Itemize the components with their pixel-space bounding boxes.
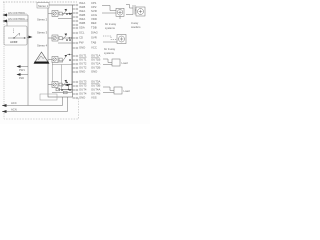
svg-text:Load: Load — [122, 61, 128, 65]
svg-text:PkD: PkD — [19, 76, 24, 80]
svg-text:CD: CD — [79, 36, 83, 40]
svg-text:for 3-way: for 3-way — [104, 47, 116, 51]
svg-text:IN3B: IN3B — [79, 21, 85, 25]
svg-text:GND: GND — [79, 70, 85, 74]
svg-text:GND: GND — [79, 96, 85, 100]
svg-text:systems: systems — [105, 26, 116, 30]
svg-text:Stereo 3: Stereo 3 — [37, 31, 48, 35]
svg-text:TDB: TDB — [91, 26, 97, 30]
svg-text:DIAG: DIAG — [91, 31, 98, 35]
svg-text:VSS: VSS — [91, 96, 97, 100]
svg-text:woofers: woofers — [131, 25, 141, 29]
svg-text:ACC: ACC — [11, 101, 17, 105]
svg-text:ACDF: ACDF — [10, 40, 18, 44]
svg-text:Stereo 2: Stereo 2 — [37, 18, 48, 22]
svg-text:Stereo 1: Stereo 1 — [38, 4, 49, 8]
svg-text:Stereo 4: Stereo 4 — [37, 44, 48, 48]
svg-text:SCL: SCL — [79, 31, 85, 35]
svg-text:systems: systems — [104, 51, 115, 55]
svg-text:for 2-way: for 2-way — [105, 22, 117, 26]
svg-text:3-way: 3-way — [131, 21, 139, 25]
svg-text:ACN: ACN — [11, 108, 17, 112]
svg-text:Load: Load — [124, 89, 130, 93]
svg-text:TAB: TAB — [91, 41, 96, 45]
svg-text:HS CONTROL -: HS CONTROL - — [8, 11, 27, 15]
svg-text:SDA: SDA — [79, 26, 85, 30]
svg-text:PW1: PW1 — [19, 68, 25, 72]
svg-text:REF: REF — [91, 21, 97, 25]
svg-text:PW: PW — [79, 41, 84, 45]
svg-text:GND: GND — [91, 70, 97, 74]
svg-text:GND: GND — [79, 46, 85, 50]
svg-text:VCC: VCC — [91, 46, 97, 50]
svg-text:SVR: SVR — [91, 36, 97, 40]
svg-text:HS CONTROL +: HS CONTROL + — [8, 17, 28, 21]
